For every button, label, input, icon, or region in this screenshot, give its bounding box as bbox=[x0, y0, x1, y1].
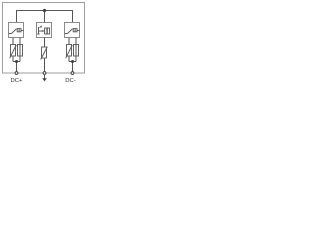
svg-text:DC+: DC+ bbox=[11, 78, 24, 84]
svg-text:DC-: DC- bbox=[65, 78, 76, 84]
